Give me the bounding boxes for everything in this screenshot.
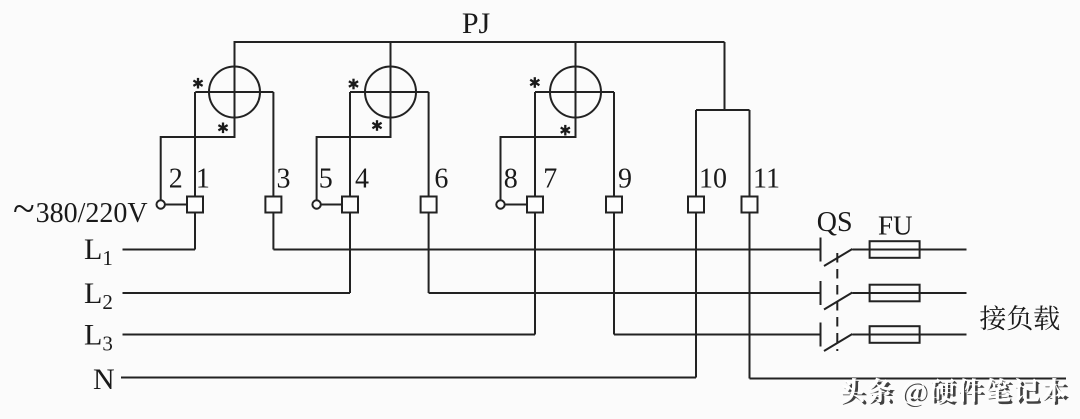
wire: neutral link bar xyxy=(696,109,750,111)
switch QS pole 2 blade xyxy=(824,293,852,310)
svg-text:2: 2 xyxy=(169,164,183,195)
wire: element 1 to terminal 1 xyxy=(194,92,196,197)
wire: link terminal 2 to 1 xyxy=(165,204,187,206)
wire: element 1 to terminal 3 xyxy=(272,92,274,197)
terminal 6 xyxy=(421,197,437,213)
wire: link terminal 5 to 4 xyxy=(321,204,342,206)
wire: L2 phase line xyxy=(123,292,351,294)
polarity mark * (element 1 voltage) xyxy=(218,123,227,134)
svg-text:QS: QS xyxy=(817,207,853,238)
wire: terminal 11 down xyxy=(749,213,751,379)
terminal 3 xyxy=(265,197,281,213)
svg-text:PJ: PJ xyxy=(462,7,491,40)
wire: terminal 10 to N xyxy=(695,213,697,378)
polarity mark * (element 2 current) xyxy=(349,79,358,90)
svg-text:N: N xyxy=(93,363,115,396)
terminal 1 xyxy=(187,197,203,213)
wire: L3 out to switch xyxy=(614,334,821,336)
wire: element 1 voltage drop xyxy=(234,41,236,138)
terminal 8 (voltage tap) xyxy=(496,200,504,208)
wire: terminal 4 to L2 xyxy=(349,213,351,294)
switch QS pole 1 fixed contact xyxy=(820,238,822,262)
switch QS pole 2 fixed contact xyxy=(820,281,822,305)
meter element 3 (drive element U3) xyxy=(550,67,601,118)
terminal 9 xyxy=(606,197,622,213)
wire: N neutral line xyxy=(121,377,696,379)
wire: fuse FU1 feed xyxy=(852,249,966,251)
switch QS pole 3 fixed contact xyxy=(820,323,822,347)
wire: element 3 voltage drop xyxy=(575,41,577,138)
fuse FU1 xyxy=(870,241,920,258)
svg-text:9: 9 xyxy=(618,164,632,195)
wire: L1 phase line xyxy=(123,249,196,251)
meter element 3 coil wire xyxy=(535,91,614,93)
svg-text:FU: FU xyxy=(878,211,913,241)
svg-text:10: 10 xyxy=(699,164,727,195)
wire: element 3 to terminal 7 xyxy=(534,92,536,197)
wire: element 3 to terminal 8 xyxy=(501,137,576,201)
terminal 4 xyxy=(342,197,358,213)
wire: fuse FU2 feed xyxy=(852,292,966,294)
wire: L3 phase line xyxy=(123,334,536,336)
wire: terminal 7 to L3 xyxy=(534,213,536,335)
fuse FU2 xyxy=(870,285,920,302)
wire: L2 out to switch xyxy=(429,292,821,294)
svg-text:6: 6 xyxy=(434,164,448,195)
wire: meter voltage bus xyxy=(235,41,725,43)
svg-text:7: 7 xyxy=(543,164,557,195)
terminal 5 (voltage tap) xyxy=(312,200,320,208)
wire: element 1 to terminal 2 xyxy=(161,137,235,201)
terminal 11 xyxy=(742,197,758,213)
fuse FU3 xyxy=(870,326,920,343)
wire: element 2 to terminal 5 xyxy=(317,137,391,201)
switch QS linkage (dashed) xyxy=(836,253,838,351)
wire: element 3 to terminal 9 xyxy=(613,92,615,197)
polarity mark * (element 1 current) xyxy=(193,78,202,89)
wire: L1 out to switch xyxy=(273,249,820,251)
load label 接负载 (connect load) xyxy=(980,305,1059,330)
polarity mark * (element 2 voltage) xyxy=(372,120,381,131)
wire: element 2 to terminal 4 xyxy=(349,92,351,197)
wire: fuse FU3 feed xyxy=(852,334,966,336)
terminal 7 xyxy=(527,197,543,213)
wire: link to terminal 10 xyxy=(695,110,697,197)
polarity mark * (element 3 voltage) xyxy=(561,125,570,136)
svg-text:4: 4 xyxy=(355,164,369,195)
wire: bus to neutral terminals xyxy=(724,42,726,110)
wire: terminal 1 to L1 xyxy=(194,213,196,250)
wire: terminal 3 down xyxy=(272,213,274,250)
svg-text:3: 3 xyxy=(277,164,291,195)
wire: element 2 to terminal 6 xyxy=(428,92,430,197)
meter element 1 (drive element U1) xyxy=(209,67,260,118)
wire: element 2 voltage drop xyxy=(390,41,392,138)
svg-text:11: 11 xyxy=(753,164,780,195)
wire: link to terminal 11 xyxy=(749,110,751,197)
watermark 头条@硬件笔记本 xyxy=(840,378,1069,407)
terminal 2 (voltage tap) xyxy=(157,200,165,208)
switch QS pole 1 blade xyxy=(824,249,852,266)
svg-text:1: 1 xyxy=(196,164,210,195)
meter element 2 (drive element U2) xyxy=(365,67,416,118)
meter element 1 coil wire xyxy=(195,91,273,93)
svg-text:8: 8 xyxy=(504,164,518,195)
wire: N out xyxy=(750,378,1067,380)
svg-text:5: 5 xyxy=(319,164,333,195)
switch QS pole 3 blade xyxy=(824,334,852,351)
wire: link terminal 8 to 7 xyxy=(505,204,527,206)
polarity mark * (element 3 current) xyxy=(530,77,539,88)
wire: terminal 6 down xyxy=(428,213,430,294)
terminal 10 xyxy=(688,197,704,213)
wire: terminal 9 down xyxy=(613,213,615,335)
meter element 2 coil wire xyxy=(350,91,429,93)
